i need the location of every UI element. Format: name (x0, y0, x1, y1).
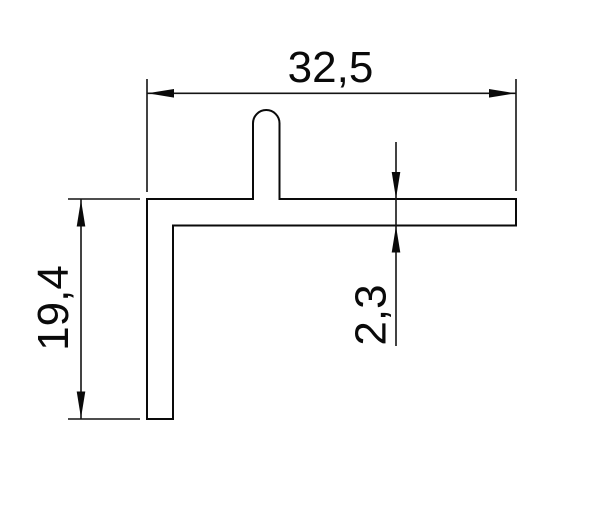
profile outline (L-angle with rounded tab) (147, 110, 516, 419)
dimension 2,3 : leader line (passes through the arm) (395, 142, 397, 346)
dimension 32,5 : right extension line (515, 79, 517, 191)
dimension 32,5 : left extension line (146, 79, 148, 192)
dimension 2,3 : lower arrowhead (pointing up) (392, 226, 401, 253)
dimension 32,5 : left arrowhead (148, 89, 175, 98)
dimension 19,4 : top extension line (68, 198, 140, 200)
dimension 19,4 : bottom extension line (68, 418, 140, 420)
dimension 32,5 : dimension line (147, 92, 516, 94)
dimension 19,4 : bottom arrowhead (77, 392, 86, 419)
dimension 2,3 : upper arrowhead (pointing down) (392, 172, 401, 199)
svg-text:32,5: 32,5 (288, 43, 374, 92)
svg-text:2,3: 2,3 (347, 284, 396, 345)
dimension 32,5 : right arrowhead (489, 89, 516, 98)
dimension 19,4 : dimension line (80, 200, 82, 419)
svg-text:19,4: 19,4 (29, 265, 78, 351)
dimension 19,4 : top arrowhead (77, 200, 86, 227)
